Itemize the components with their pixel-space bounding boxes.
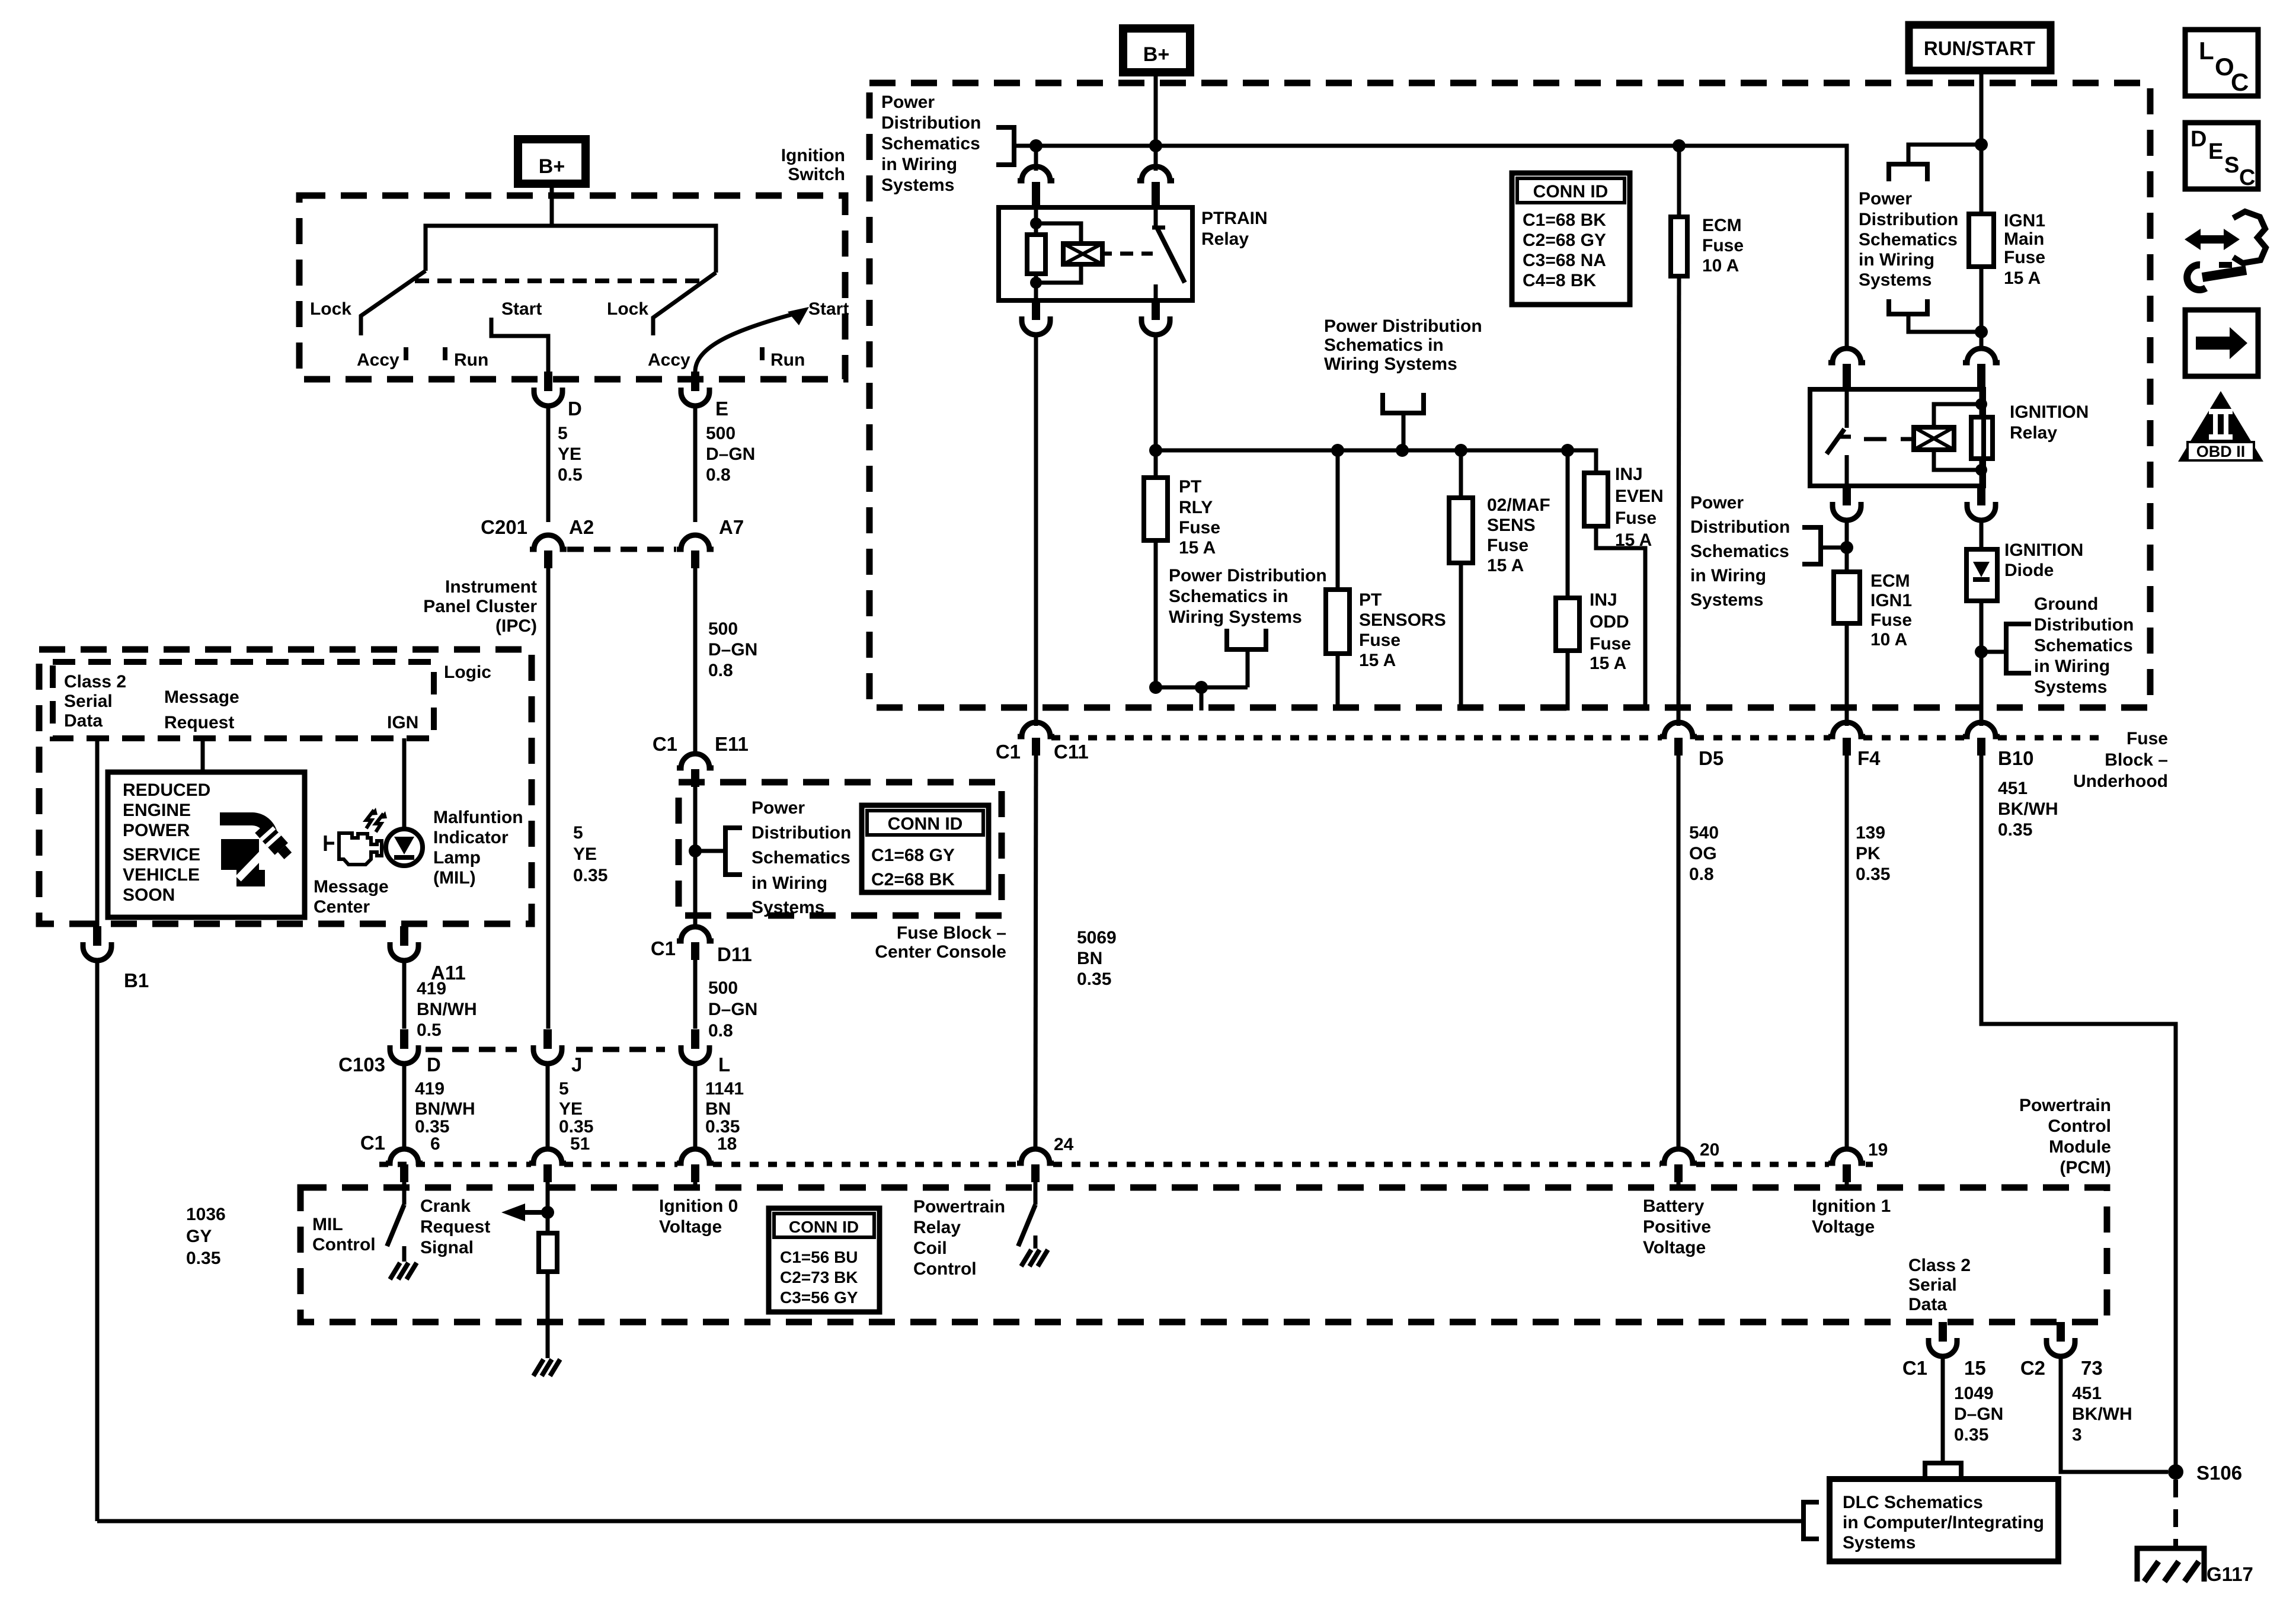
- wire B+ to relay: [1154, 146, 1158, 171]
- wire D11 down: [693, 960, 698, 1029]
- svg-text:0.35: 0.35: [573, 866, 607, 885]
- contact tick Run left: [443, 347, 447, 360]
- wire B+ to ignition switch: [550, 184, 554, 226]
- bracket upper: [1889, 164, 1927, 181]
- svg-text:REDUCED: REDUCED: [123, 780, 210, 800]
- bracket power distribution (top left): [996, 127, 1014, 165]
- svg-text:0.35: 0.35: [186, 1249, 220, 1268]
- svg-text:500: 500: [708, 978, 738, 998]
- svg-text:Lamp: Lamp: [433, 848, 481, 868]
- relay winding box: [1063, 244, 1102, 264]
- svg-text:Distribution: Distribution: [1690, 517, 1790, 537]
- wire 451 BK/WH: [1981, 756, 2176, 1472]
- svg-text:139: 139: [1856, 823, 1885, 843]
- svg-text:Serial: Serial: [1908, 1275, 1957, 1295]
- svg-text:Coil: Coil: [913, 1238, 947, 1258]
- svg-text:IGNITION: IGNITION: [2004, 540, 2083, 560]
- fuse PT RLY: [1154, 450, 1158, 478]
- wire 18 stub: [693, 1182, 698, 1190]
- svg-text:24: 24: [1054, 1135, 1074, 1154]
- wire L down: [693, 1064, 698, 1150]
- fuse ECM: [1677, 146, 1681, 217]
- svg-text:0.35: 0.35: [1077, 969, 1111, 989]
- svg-text:C1: C1: [996, 741, 1021, 763]
- bracket feed (power distribution): [1383, 393, 1424, 413]
- svg-text:Schematics in: Schematics in: [1324, 335, 1444, 355]
- svg-text:15 A: 15 A: [1487, 556, 1524, 575]
- svg-text:Ignition 0: Ignition 0: [659, 1196, 738, 1216]
- svg-text:Distribution: Distribution: [752, 823, 851, 843]
- wire E11 down through console box: [693, 787, 698, 928]
- svg-text:BN: BN: [1077, 949, 1102, 968]
- svg-text:C1=68 BK: C1=68 BK: [1523, 210, 1606, 230]
- svg-text:Lock: Lock: [310, 299, 351, 319]
- svg-text:500: 500: [708, 619, 738, 639]
- svg-text:E11: E11: [715, 733, 749, 755]
- svg-text:Systems: Systems: [1843, 1533, 1916, 1553]
- svg-text:0.8: 0.8: [706, 465, 731, 485]
- svg-text:Schematics: Schematics: [1859, 230, 1958, 249]
- svg-text:RUN/START: RUN/START: [1924, 37, 2035, 59]
- svg-text:C1: C1: [1902, 1357, 1927, 1379]
- svg-text:A7: A7: [719, 516, 744, 538]
- svg-text:BK/WH: BK/WH: [2072, 1404, 2132, 1424]
- svg-text:Schematics: Schematics: [1690, 542, 1789, 561]
- svg-text:C: C: [2239, 165, 2255, 190]
- switch blade right (Lock): [653, 273, 716, 335]
- svg-text:C1: C1: [360, 1132, 385, 1154]
- connector B10: [1963, 722, 2000, 737]
- svg-text:E: E: [2208, 139, 2223, 164]
- junction: [1396, 444, 1409, 457]
- svg-text:Control: Control: [312, 1235, 376, 1254]
- wire 451 BK/WH 3: [2061, 1356, 2168, 1472]
- wrench service icon: [220, 812, 253, 825]
- svg-text:Accy: Accy: [357, 350, 399, 370]
- svg-text:BN/WH: BN/WH: [415, 1099, 475, 1119]
- svg-text:OBD II: OBD II: [2196, 443, 2246, 460]
- svg-text:Request: Request: [420, 1217, 490, 1237]
- svg-text:PT: PT: [1179, 477, 1201, 497]
- svg-text:(PCM): (PCM): [2060, 1158, 2111, 1177]
- wire D down: [402, 1064, 407, 1150]
- svg-text:BK/WH: BK/WH: [1998, 799, 2058, 819]
- dashed connector row C201: [567, 547, 676, 552]
- svg-text:Relay: Relay: [2010, 423, 2057, 443]
- svg-text:20: 20: [1700, 1140, 1719, 1160]
- wire J down: [546, 1064, 550, 1150]
- svg-text:SOON: SOON: [123, 885, 175, 905]
- wire 20 stub: [1677, 1182, 1681, 1190]
- svg-text:S106: S106: [2196, 1462, 2242, 1484]
- svg-text:19: 19: [1868, 1140, 1888, 1160]
- svg-text:Control: Control: [2048, 1116, 2111, 1136]
- svg-text:451: 451: [1998, 779, 2028, 798]
- junction: [1975, 138, 1988, 151]
- wire to PTRAIN coil: [1034, 146, 1038, 171]
- row dashes: [426, 1047, 517, 1052]
- svg-text:15 A: 15 A: [1590, 654, 1626, 673]
- svg-text:Signal: Signal: [420, 1238, 474, 1257]
- svg-text:Fuse: Fuse: [2004, 248, 2045, 267]
- svg-text:0.35: 0.35: [1998, 820, 2032, 840]
- splice S106: [2168, 1464, 2183, 1480]
- IGNITION relay box: [1810, 389, 1984, 486]
- svg-text:Fuse: Fuse: [1590, 634, 1631, 654]
- wire 139 PK: [1845, 756, 1849, 1150]
- svg-text:Main: Main: [2004, 229, 2044, 249]
- svg-text:(IPC): (IPC): [495, 616, 537, 636]
- svg-text:YE: YE: [559, 1099, 583, 1119]
- connector C103 J: [543, 1029, 552, 1049]
- dashed wire S106 to G117: [2173, 1480, 2178, 1548]
- wire switch out to mid bus: [1154, 335, 1158, 450]
- svg-text:C11: C11: [1054, 741, 1089, 763]
- svg-text:PK: PK: [1856, 844, 1881, 863]
- svg-text:DLC Schematics: DLC Schematics: [1843, 1493, 1983, 1512]
- svg-text:ECM: ECM: [1870, 571, 1910, 591]
- svg-text:YE: YE: [573, 844, 597, 864]
- junction: [1673, 139, 1686, 152]
- svg-text:02/MAF: 02/MAF: [1487, 495, 1550, 515]
- contact tick Run right: [760, 347, 765, 360]
- svg-text:ENGINE: ENGINE: [123, 801, 191, 820]
- svg-text:Systems: Systems: [1690, 590, 1763, 610]
- svg-text:3: 3: [2072, 1425, 2082, 1445]
- fuse IGN1 Main: [1969, 214, 1994, 267]
- svg-text:Voltage: Voltage: [1812, 1217, 1875, 1237]
- svg-text:in Wiring: in Wiring: [881, 155, 957, 174]
- svg-text:C2=73 BK: C2=73 BK: [780, 1268, 858, 1286]
- pt rly fuse link: [1156, 686, 1248, 690]
- link back to wire: [1908, 314, 1981, 332]
- svg-text:Crank: Crank: [420, 1196, 471, 1216]
- bracket lower: [1889, 299, 1927, 314]
- icon wrench and arrow: [2196, 235, 2227, 244]
- svg-text:Schematics: Schematics: [752, 848, 850, 868]
- svg-text:Data: Data: [64, 711, 103, 731]
- svg-text:in Wiring: in Wiring: [752, 873, 827, 893]
- svg-text:Indicator: Indicator: [433, 828, 509, 847]
- svg-text:Fuse: Fuse: [1359, 630, 1400, 650]
- svg-text:IGN1: IGN1: [1870, 591, 1912, 610]
- connector C103 L: [691, 1029, 699, 1049]
- svg-text:Block –: Block –: [2105, 750, 2168, 770]
- junction: [1975, 325, 1988, 338]
- svg-text:419: 419: [417, 979, 446, 998]
- svg-text:73: 73: [2081, 1357, 2103, 1379]
- svg-text:Run: Run: [454, 350, 488, 370]
- svg-text:Fuse: Fuse: [1702, 236, 1744, 255]
- svg-text:Schematics in: Schematics in: [1169, 587, 1288, 606]
- winding to switch dashes: [1102, 252, 1112, 256]
- ground relay coil control: [1034, 1235, 1038, 1249]
- ignition relay resistor: [1980, 389, 1984, 417]
- svg-text:Underhood: Underhood: [2073, 772, 2168, 791]
- junction: [541, 1206, 554, 1219]
- wire A2 down (5 YE 0.35): [546, 568, 551, 1029]
- power symbol B+ (underhood): [1123, 28, 1190, 72]
- svg-text:Systems: Systems: [2034, 677, 2107, 697]
- svg-text:0.8: 0.8: [1689, 865, 1714, 884]
- fuse ECM IGN1: [1834, 572, 1860, 623]
- junction: [1030, 277, 1042, 289]
- svg-text:Voltage: Voltage: [1643, 1238, 1706, 1257]
- svg-text:Control: Control: [913, 1259, 977, 1279]
- svg-text:5069: 5069: [1077, 928, 1117, 948]
- svg-text:D5: D5: [1699, 747, 1723, 769]
- connector C201 A7: [677, 535, 714, 549]
- junction: [1975, 398, 1987, 410]
- svg-text:Wiring Systems: Wiring Systems: [1169, 607, 1302, 627]
- wire resistor to ground: [546, 1272, 550, 1355]
- svg-text:15: 15: [1964, 1357, 1986, 1379]
- svg-text:Start: Start: [808, 299, 849, 319]
- icon LOC: [2185, 30, 2258, 96]
- svg-text:D: D: [568, 398, 582, 420]
- wire D down: [546, 406, 551, 522]
- svg-text:C1=56 BU: C1=56 BU: [780, 1248, 858, 1266]
- svg-text:15 A: 15 A: [1615, 530, 1652, 550]
- svg-text:Power Distribution: Power Distribution: [1169, 566, 1327, 585]
- fuse INJ ODD: [1566, 450, 1570, 598]
- svg-text:OG: OG: [1689, 844, 1717, 863]
- svg-text:YE: YE: [558, 444, 581, 464]
- connector B1: [93, 926, 101, 946]
- crank request wire: [546, 1182, 550, 1233]
- icon OBD II triangle: [2178, 391, 2263, 462]
- junction: [1975, 645, 1988, 658]
- svg-text:MIL: MIL: [312, 1215, 343, 1234]
- svg-text:C201: C201: [481, 516, 527, 538]
- junction: [1149, 681, 1162, 694]
- ground G117: [2137, 1548, 2204, 1582]
- connector A11: [400, 926, 408, 946]
- wire MIL control down: [402, 961, 407, 1029]
- svg-text:BN: BN: [705, 1099, 731, 1119]
- MIL lamp LED symbol: [386, 829, 423, 866]
- connector D5: [1660, 722, 1697, 737]
- winding loop: [1934, 404, 1981, 427]
- wire coil out down to C1/C11: [1034, 335, 1038, 726]
- svg-text:Systems: Systems: [1859, 270, 1932, 290]
- junction: [1454, 444, 1467, 457]
- CONN ID table (underhood): [1512, 173, 1630, 305]
- svg-text:ECM: ECM: [1702, 216, 1742, 235]
- svg-text:Fuse: Fuse: [1615, 508, 1657, 528]
- svg-text:CONN ID: CONN ID: [1533, 182, 1609, 201]
- svg-text:E: E: [715, 398, 728, 420]
- svg-text:Run: Run: [770, 350, 805, 370]
- svg-text:540: 540: [1689, 823, 1719, 843]
- svg-text:D: D: [427, 1054, 441, 1076]
- connector PTRAIN switch out: [1152, 300, 1160, 320]
- svg-text:Power Distribution: Power Distribution: [1324, 316, 1482, 336]
- svg-text:Start: Start: [501, 299, 542, 319]
- svg-text:Relay: Relay: [1201, 229, 1249, 249]
- svg-text:GY: GY: [186, 1227, 212, 1246]
- svg-text:C: C: [2231, 68, 2249, 96]
- connector F4: [1828, 722, 1865, 737]
- PTRAIN switch blade: [1154, 207, 1158, 226]
- svg-text:POWER: POWER: [123, 821, 190, 840]
- CONN ID table (PCM): [769, 1208, 880, 1312]
- svg-text:B10: B10: [1998, 747, 2034, 769]
- svg-text:5: 5: [573, 823, 583, 843]
- svg-text:Malfuntion: Malfuntion: [433, 808, 523, 827]
- off-page bracket power distribution: [725, 828, 742, 875]
- svg-text:IGN: IGN: [387, 713, 418, 732]
- svg-text:IGNITION: IGNITION: [2010, 402, 2089, 422]
- bracket (power distribution left): [1802, 527, 1821, 564]
- svg-text:0.5: 0.5: [558, 465, 583, 485]
- svg-text:0.35: 0.35: [1856, 865, 1890, 884]
- svg-text:CONN ID: CONN ID: [888, 814, 963, 834]
- svg-text:Request: Request: [164, 713, 234, 732]
- engine icon: [324, 836, 327, 851]
- bottom wire 1036 GY to DLC: [97, 1519, 1803, 1523]
- svg-text:(MIL): (MIL): [433, 868, 476, 888]
- bracket ground distribution: [2006, 624, 2031, 673]
- svg-text:Positive: Positive: [1643, 1217, 1711, 1237]
- fuse PT SENSORS: [1336, 450, 1340, 590]
- instrument panel cluster box: [39, 649, 532, 924]
- svg-text:VEHICLE: VEHICLE: [123, 865, 200, 885]
- svg-text:D–GN: D–GN: [706, 444, 755, 464]
- svg-text:Voltage: Voltage: [659, 1217, 722, 1237]
- svg-text:Power: Power: [1859, 189, 1912, 209]
- wire class2 down left side: [95, 961, 100, 1521]
- svg-text:Message: Message: [314, 877, 389, 897]
- svg-text:C2: C2: [2020, 1357, 2045, 1379]
- connector PTRAIN switch: [1137, 167, 1174, 181]
- svg-text:Fuse: Fuse: [1179, 518, 1220, 537]
- MIL control switch: [402, 1182, 407, 1205]
- svg-text:Class 2: Class 2: [64, 672, 126, 692]
- svg-text:Accy: Accy: [648, 350, 690, 370]
- dashes: [1864, 437, 1886, 441]
- connector C1 15: [1939, 1322, 1947, 1342]
- connector C1 C11: [1018, 722, 1054, 737]
- svg-text:INJ: INJ: [1615, 465, 1643, 484]
- ignition relay winding box: [1914, 427, 1954, 450]
- svg-text:EVEN: EVEN: [1615, 486, 1664, 506]
- wire 540 OG: [1677, 756, 1681, 1150]
- svg-text:Distribution: Distribution: [2034, 615, 2134, 635]
- bracket line: [1821, 546, 1847, 550]
- svg-text:6: 6: [430, 1134, 440, 1154]
- svg-text:Fuse: Fuse: [1487, 536, 1528, 555]
- junction: [1975, 464, 1987, 476]
- svg-text:in Wiring: in Wiring: [2034, 657, 2110, 676]
- arrowhead Start: [788, 307, 809, 325]
- fuse block center console box: [679, 782, 1002, 916]
- ignition switch internal bus: [426, 226, 716, 273]
- ignition switch box: [299, 196, 845, 379]
- svg-text:Diode: Diode: [2004, 561, 2054, 580]
- svg-text:Systems: Systems: [752, 898, 824, 917]
- svg-text:F4: F4: [1857, 747, 1881, 769]
- svg-text:0.35: 0.35: [1954, 1425, 1988, 1445]
- logic box: [53, 662, 434, 738]
- bracket (pt rly to power distribution): [1227, 629, 1266, 649]
- svg-text:Power: Power: [881, 92, 935, 112]
- DLC schematics box: [1830, 1479, 2058, 1561]
- wire message request: [201, 738, 205, 773]
- svg-text:Distribution: Distribution: [1859, 210, 1958, 229]
- svg-text:Switch: Switch: [788, 165, 845, 184]
- svg-text:Distribution: Distribution: [881, 113, 981, 133]
- svg-text:C2=68 BK: C2=68 BK: [871, 870, 955, 889]
- svg-text:Fuse Block –: Fuse Block –: [897, 923, 1006, 943]
- svg-text:PT: PT: [1359, 590, 1382, 610]
- junction: [1331, 444, 1344, 457]
- CONN ID table (center console): [862, 805, 989, 892]
- svg-text:Lock: Lock: [607, 299, 648, 319]
- svg-text:Powertrain: Powertrain: [2019, 1096, 2111, 1115]
- svg-text:10 A: 10 A: [1702, 256, 1739, 276]
- off-page bracket to DLC: [1925, 1463, 1961, 1481]
- svg-text:Fuse: Fuse: [1870, 610, 1912, 630]
- link to off-page note: [1908, 145, 1981, 164]
- PTRAIN relay box: [999, 207, 1192, 300]
- connector ignition relay out left: [1843, 486, 1851, 505]
- junction: [1029, 139, 1043, 152]
- svg-text:1036: 1036: [186, 1205, 226, 1224]
- connector PCM 51: [529, 1149, 566, 1163]
- connector PTRAIN coil out: [1032, 300, 1040, 320]
- junction: [1149, 444, 1162, 457]
- svg-text:Schematics: Schematics: [2034, 636, 2133, 655]
- svg-text:0.8: 0.8: [708, 1021, 733, 1041]
- bracket DLC left: [1803, 1502, 1819, 1539]
- svg-text:D11: D11: [717, 943, 752, 965]
- svg-text:15 A: 15 A: [2004, 268, 2041, 288]
- svg-text:B+: B+: [539, 155, 565, 178]
- svg-text:Serial: Serial: [64, 692, 113, 711]
- junction: [1840, 541, 1853, 554]
- relay coil resistor: [1034, 207, 1038, 235]
- svg-text:15 A: 15 A: [1359, 651, 1396, 670]
- svg-text:Logic: Logic: [444, 662, 491, 682]
- svg-text:C103: C103: [338, 1054, 385, 1076]
- ground crank: [546, 1355, 550, 1358]
- switch curve to Start (right): [695, 312, 800, 372]
- svg-text:SERVICE: SERVICE: [123, 845, 200, 865]
- arrow crank request: [523, 1210, 548, 1215]
- svg-text:1141: 1141: [705, 1079, 744, 1099]
- svg-text:ODD: ODD: [1590, 612, 1629, 632]
- svg-text:Power: Power: [1690, 493, 1744, 513]
- row dashes: [576, 1047, 665, 1052]
- svg-text:Systems: Systems: [881, 175, 954, 195]
- power symbol B+ (ignition switch feed): [518, 139, 586, 184]
- ignition diode: [1980, 520, 1984, 549]
- wire B+ down: [1154, 72, 1158, 145]
- svg-text:Ignition: Ignition: [781, 146, 845, 165]
- wire to off-page bracket: [695, 849, 725, 853]
- connector PCM 20: [1660, 1149, 1697, 1163]
- svg-text:A2: A2: [569, 516, 594, 538]
- connector ignition relay out right: [1977, 486, 1985, 505]
- svg-text:in Computer/Integrating: in Computer/Integrating: [1843, 1513, 2044, 1532]
- svg-text:Ground: Ground: [2034, 594, 2098, 614]
- svg-text:PTRAIN: PTRAIN: [1201, 209, 1268, 228]
- mechanical coupling dashed: [415, 279, 702, 283]
- wire Start contact to D terminal: [491, 318, 548, 372]
- svg-text:Instrument: Instrument: [445, 577, 537, 597]
- message center display box: [108, 772, 305, 917]
